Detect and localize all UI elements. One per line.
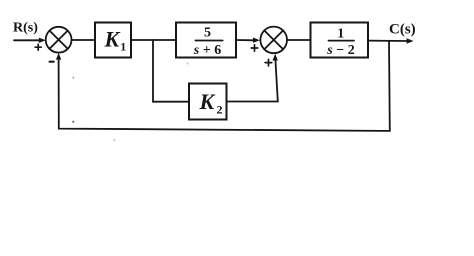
svg-text:R(s): R(s) xyxy=(13,20,38,35)
svg-text:K: K xyxy=(104,27,121,52)
svg-text:5: 5 xyxy=(204,26,211,41)
svg-text:s + 6: s + 6 xyxy=(193,43,221,58)
svg-text:C(s): C(s) xyxy=(389,21,416,37)
svg-text:1: 1 xyxy=(120,40,126,54)
svg-text:K: K xyxy=(199,89,216,114)
svg-text:s − 2: s − 2 xyxy=(326,43,354,58)
svg-text:1: 1 xyxy=(337,27,344,42)
svg-text:2: 2 xyxy=(217,103,223,117)
